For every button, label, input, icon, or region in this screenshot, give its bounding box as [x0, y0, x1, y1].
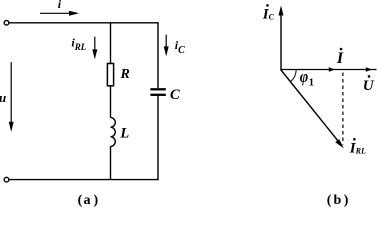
wire right branch lower: [157, 96, 159, 180]
svg-text:1: 1: [309, 78, 314, 89]
inductor L: [111, 118, 116, 147]
wire bottom: [9, 179, 159, 181]
angle arc phi1: [290, 70, 296, 82]
capacitor C: [150, 89, 165, 95]
arrow i_RL: [92, 37, 97, 60]
resistor R: [107, 64, 113, 86]
svg-text:φ: φ: [300, 68, 308, 86]
label I_RL: [349, 138, 366, 157]
phasor I_C arrow: [279, 6, 284, 70]
phasor I_RL arrow: [281, 70, 344, 149]
svg-text:U: U: [363, 78, 375, 94]
svg-text:L: L: [119, 125, 129, 141]
svg-text:u: u: [0, 90, 6, 105]
svg-text:R: R: [120, 67, 130, 82]
phasor I arrowhead: [329, 67, 335, 72]
label phi1: [300, 68, 314, 88]
svg-text:(a): (a): [78, 193, 99, 208]
label U: [363, 75, 375, 94]
label I: [336, 48, 344, 67]
arrow i_C: [164, 35, 169, 57]
terminal bottom-left: [4, 177, 9, 182]
wire RL branch upper: [110, 23, 112, 64]
dashed projection line: [342, 73, 344, 145]
voltage arrow u: [9, 62, 14, 132]
wire R to L: [110, 86, 112, 118]
svg-text:C: C: [170, 87, 180, 103]
wire RL branch lower: [110, 146, 112, 179]
wire right branch upper: [157, 22, 159, 88]
terminal top-left: [4, 21, 9, 26]
wire top: [9, 22, 158, 24]
svg-text:(b): (b): [327, 193, 349, 208]
label I_C: [262, 4, 275, 22]
phasor U axis arrow: [280, 67, 376, 72]
current arrow i: [40, 11, 79, 16]
svg-text:I: I: [336, 50, 344, 67]
